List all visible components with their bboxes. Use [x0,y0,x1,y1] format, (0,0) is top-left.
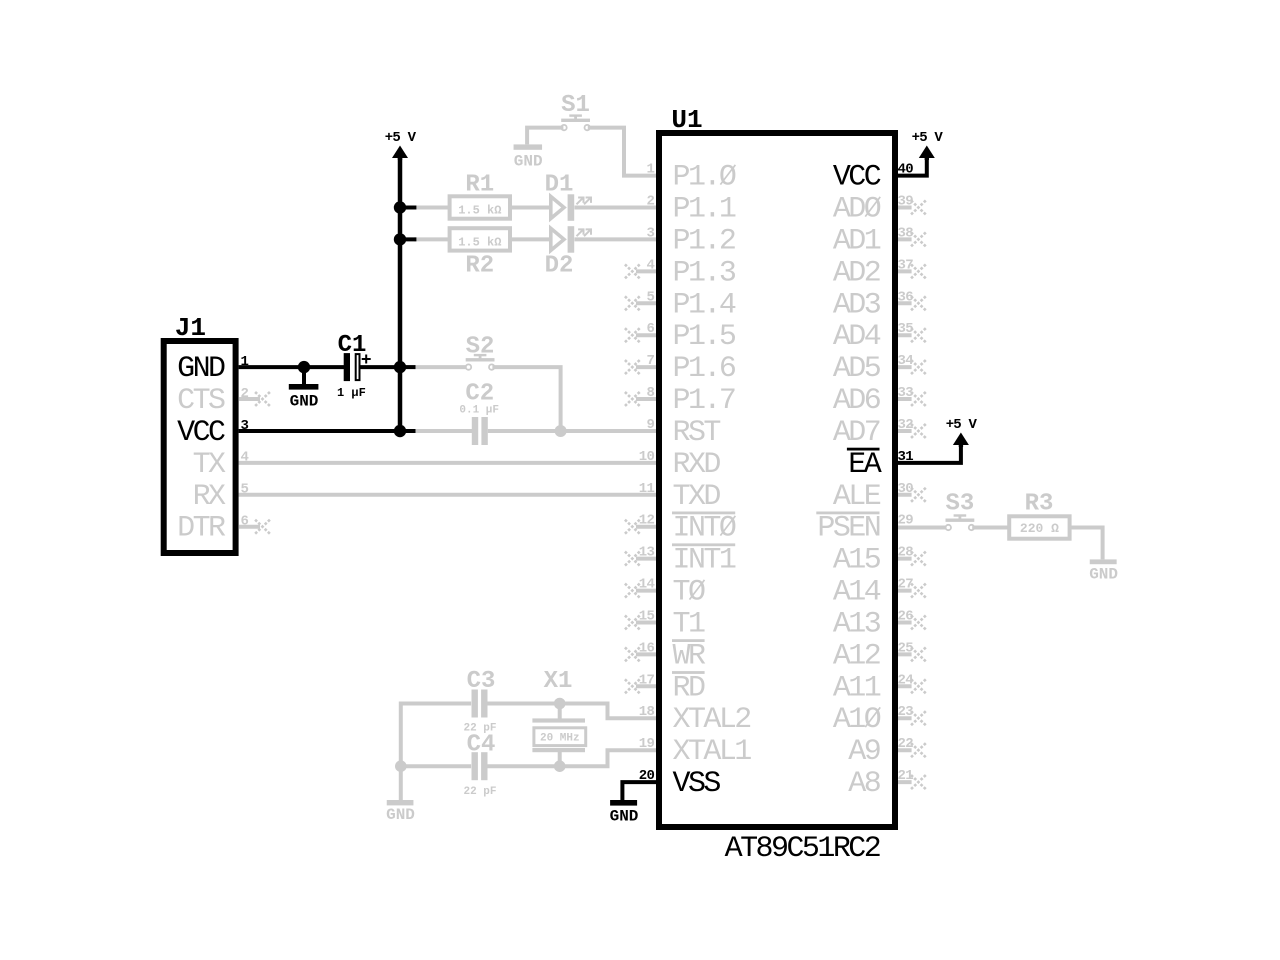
wire +5V stub to R2 [414,237,448,241]
svg-text:P1.2: P1.2 [673,224,735,258]
U1 pin 16 label WR [672,639,706,673]
svg-text:12: 12 [639,513,655,529]
wire +5V to S2 [414,365,466,369]
svg-text:10: 10 [639,449,655,465]
svg-text:INT1: INT1 [673,544,736,578]
U1 pin 5 stub (n.c.) [636,301,660,305]
svg-text:22 pF: 22 pF [463,786,496,798]
no-connect X (pin 17) [625,679,640,693]
U1 pin 34 stub (n.c.) [894,365,912,369]
svg-text:C1: C1 [338,332,367,359]
U1 pin 15 stub (n.c.) [636,621,660,625]
capacitor C2 [465,381,494,446]
wire crystal ground rail [399,702,403,801]
svg-text:220 Ω: 220 Ω [1020,521,1059,536]
wire rail stub R2 [400,237,416,241]
svg-text:D2: D2 [545,253,574,280]
svg-text:J1: J1 [175,313,206,343]
svg-text:AD3: AD3 [833,288,881,322]
svg-text:13: 13 [639,545,655,561]
svg-text:PSEN: PSEN [817,512,879,546]
svg-text:22: 22 [898,736,914,752]
U1 pin 39 stub (n.c.) [894,206,912,210]
wire J1 VCC to +5V rail [239,429,402,433]
node GND tee [298,361,310,373]
node XTAL1 tee [554,760,566,772]
svg-text:19: 19 [639,736,655,752]
svg-text:3: 3 [646,225,654,241]
wire rail stub R1 [400,206,416,210]
svg-text:2: 2 [646,194,654,210]
no-connect X (pin 16) [625,647,640,661]
svg-text:WR: WR [673,639,706,673]
node crystal gnd junction [395,760,407,772]
svg-text:26: 26 [898,609,914,625]
svg-text:35: 35 [898,321,914,337]
svg-text:37: 37 [898,257,914,273]
svg-text:4: 4 [646,257,654,273]
U1 pin 30 label ALE [833,480,881,514]
svg-text:R3: R3 [1025,491,1054,518]
svg-text:+5 V: +5 V [912,130,944,146]
wire J1 RX to U1 TXD [239,493,660,497]
svg-text:T1: T1 [673,608,705,642]
U1 pin 18 label XTAL2 [673,703,751,737]
no-connect X (CTS) [255,392,270,406]
svg-text:C4: C4 [467,731,496,758]
svg-text:AT89C51RC2: AT89C51RC2 [725,832,880,866]
power +5V (VCC pin 40) [919,146,935,159]
capacitor C1 [338,332,367,381]
svg-text:GND: GND [514,153,543,171]
LED D1 [545,172,591,221]
capacitor C3 [467,668,496,718]
no-connect X (pin 25) [911,647,926,661]
power +5V (EA pin 31) [953,433,969,446]
svg-text:P1.Ø: P1.Ø [673,161,737,195]
U1 pin 32 stub (n.c.) [894,429,912,433]
U1 pin 32 label AD7 [833,416,880,450]
U1 pin 39 label AD0 [833,193,882,227]
no-connect X (pin 8) [625,392,640,406]
svg-text:P1.6: P1.6 [673,352,736,386]
no-connect X (pin 28) [911,552,926,566]
svg-text:P1.3: P1.3 [673,256,736,290]
svg-text:1: 1 [646,162,654,178]
svg-text:X1: X1 [544,668,573,695]
wire C3 to U1 pin 18 (XTAL2) [488,704,661,719]
svg-text:+5 V: +5 V [946,417,978,433]
U1 pin 3 label P1.2 [673,224,735,258]
U1 pin 1 label P1.0 [673,161,737,195]
wire crystal bottom stub [558,751,562,766]
U1 pin 37 label AD2 [833,256,880,290]
svg-text:AD5: AD5 [833,352,881,386]
ground (crystal) [386,800,415,824]
wire R1 to D1 [512,206,551,210]
wire rail stub S2 [400,365,416,369]
U1 pin 23 label A10 [833,703,882,737]
node rail/R1 [394,201,406,213]
svg-text:TXD: TXD [673,480,721,514]
svg-text:17: 17 [639,672,655,688]
svg-text:5: 5 [646,289,654,305]
svg-text:GND: GND [1089,566,1118,584]
svg-text:20 MHz: 20 MHz [540,733,580,745]
svg-text:CTS: CTS [177,384,225,418]
svg-text:A12: A12 [833,639,880,673]
wire D1 to U1 pin 2 (P1.1) [575,206,661,210]
U1 pin 27 stub (n.c.) [894,589,912,593]
svg-text:11: 11 [639,481,655,497]
ground (R3) [1089,559,1118,583]
svg-text:C2: C2 [465,381,494,408]
no-connect X (pin 13) [625,552,640,566]
ground (VSS) [610,800,639,826]
svg-text:1.5 kΩ: 1.5 kΩ [458,236,501,250]
wire VCC to C2 [414,429,472,433]
svg-text:DTR: DTR [177,512,226,546]
no-connect X (pin 24) [911,679,926,693]
svg-text:C3: C3 [467,668,496,695]
no-connect X (pin 23) [911,711,926,725]
U1 pin 6 label P1.5 [673,320,736,354]
resistor R1 [450,172,510,219]
switch S2 [466,334,495,370]
U1 pin 23 stub (n.c.) [894,716,912,720]
U1 pin 19 label XTAL1 [673,735,752,769]
U1 pin 8 label P1.7 [673,384,735,418]
wire C2 to U1 pin 9 (RST) [488,429,660,433]
svg-text:U1: U1 [671,105,702,135]
svg-text:GND: GND [386,806,415,824]
svg-text:P1.4: P1.4 [673,288,736,322]
U1 pin 16 stub (n.c.) [636,652,660,656]
svg-text:GND: GND [177,352,225,386]
switch S1 [561,92,590,130]
wire U1 EA to +5V [892,447,961,463]
wire R3 to ground [1071,528,1103,560]
U1 pin 36 label AD3 [833,288,881,322]
svg-text:A13: A13 [833,608,881,642]
svg-text:27: 27 [898,577,914,593]
svg-text:GND: GND [610,808,639,826]
U1 pin 13 label INT1 [672,543,736,577]
svg-text:18: 18 [639,704,655,720]
no-connect X (pin 38) [911,232,926,246]
svg-text:ADØ: ADØ [833,193,882,227]
svg-text:29: 29 [898,513,914,529]
no-connect X (pin 35) [911,328,926,342]
wire U1 VCC to +5V [892,160,927,176]
svg-text:34: 34 [898,353,914,369]
svg-text:4: 4 [241,450,249,466]
wire C1 to +5V rail [361,365,403,369]
LED D2 [545,226,591,279]
U1 pin 38 label AD1 [833,224,881,258]
J1 pin 6 stub (DTR, n.c.) [239,525,260,529]
svg-text:23: 23 [898,704,914,720]
svg-text:15: 15 [639,609,655,625]
U1 pin 8 stub (n.c.) [636,397,660,401]
wire R2 to D2 [512,237,551,241]
C1 polarity + [362,355,371,364]
U1 pin 22 label A9 [848,735,879,769]
U1 pin 27 label A14 [833,576,881,610]
svg-text:16: 16 [639,640,655,656]
no-connect X (pin 32) [911,424,926,438]
connector J1 [164,341,236,553]
svg-text:6: 6 [646,321,654,337]
svg-text:+5 V: +5 V [385,130,417,146]
IC U1 body [659,133,895,827]
svg-text:A9: A9 [848,735,879,769]
U1 pin 38 stub (n.c.) [894,237,912,241]
no-connect X (pin 37) [911,264,926,278]
crystal X1 [532,668,585,752]
no-connect X (pin 5) [625,296,640,310]
svg-text:1.5 kΩ: 1.5 kΩ [458,204,501,218]
U1 pin 28 label A15 [833,544,881,578]
ground (C1) [289,384,319,410]
U1 pin 22 stub (n.c.) [894,748,912,752]
U1 pin 4 label P1.3 [673,256,736,290]
U1 pin 6 stub (n.c.) [636,333,660,337]
svg-text:XTAL2: XTAL2 [673,703,751,737]
U1 pin 25 label A12 [833,639,880,673]
node rail/VCC [394,425,406,437]
wire S3 to R3 [972,526,1008,530]
no-connect X (pin 30) [911,488,926,502]
svg-text:P1.7: P1.7 [673,384,735,418]
U1 pin 40 label VCC [833,161,881,195]
svg-text:24: 24 [898,672,914,688]
U1 pin 33 stub (n.c.) [894,397,912,401]
svg-text:AD1: AD1 [833,224,881,258]
no-connect X (pin 34) [911,360,926,374]
svg-text:GND: GND [290,392,319,410]
wire U1 pin 29 (PSEN) to S3 [894,526,948,530]
wire S1 to U1 pin 1 (P1.0) [588,128,660,176]
U1 pin 12 stub (n.c.) [636,525,660,529]
wire crystal top stub [558,704,562,720]
U1 pin 7 stub (n.c.) [636,365,660,369]
U1 pin 25 stub (n.c.) [894,652,912,656]
node rail/R2 [394,233,406,245]
U1 pin 7 label P1.6 [673,352,736,386]
wire C4 to U1 pin 19 (XTAL1) [488,750,661,766]
svg-text:36: 36 [898,289,914,305]
no-connect X (pin 21) [911,775,926,789]
wire J1 TX to U1 RXD [239,461,660,465]
no-connect X (pin 15) [625,616,640,630]
svg-text:AD6: AD6 [833,384,881,418]
svg-text:8: 8 [646,385,654,401]
U1 pin 10 label RXD [673,448,721,482]
U1 pin 12 label INT0 [672,512,737,546]
U1 pin 9 label RST [673,416,721,450]
U1 pin 33 label AD6 [833,384,881,418]
U1 pin 21 label A8 [848,767,880,801]
no-connect X (DTR) [255,520,270,534]
J1 pin 2 stub (CTS, n.c.) [239,397,260,401]
svg-text:A14: A14 [833,576,881,610]
U1 pin 14 label T0 [673,576,706,610]
U1 pin 4 stub (n.c.) [636,269,660,273]
node XTAL2 tee [554,698,566,710]
U1 pin 20 label VSS [673,767,721,801]
svg-text:RST: RST [673,416,721,450]
no-connect X (pin 27) [911,584,926,598]
U1 pin 14 stub (n.c.) [636,589,660,593]
U1 pin 13 stub (n.c.) [636,557,660,561]
no-connect X (pin 6) [625,328,640,342]
U1 pin 11 label TXD [673,480,721,514]
svg-text:S3: S3 [945,491,974,518]
svg-text:30: 30 [898,481,914,497]
power +5V (rail) [392,146,408,159]
U1 pin 17 label RD [672,671,705,705]
resistor R3 [1009,491,1069,539]
wire GND tee down [302,367,306,384]
+5V rail [398,158,403,431]
svg-text:39: 39 [898,194,914,210]
resistor R2 [450,228,510,279]
svg-text:TX: TX [193,448,226,482]
U1 pin 35 stub (n.c.) [894,333,912,337]
svg-text:14: 14 [639,577,655,593]
svg-text:RXD: RXD [673,448,721,482]
U1 pin 26 stub (n.c.) [894,621,912,625]
svg-text:INTØ: INTØ [673,512,737,546]
svg-text:VSS: VSS [673,767,721,801]
U1 pin 26 label A13 [833,608,881,642]
wire XTAL1 net [401,764,471,768]
wire XTAL2 net [401,702,471,706]
wire S2 to RST node [492,367,560,431]
U1 pin 5 label P1.4 [673,288,736,322]
no-connect X (pin 36) [911,296,926,310]
svg-text:9: 9 [646,417,654,433]
svg-text:32: 32 [898,417,914,433]
wire J1 GND to C1 [239,365,346,369]
U1 pin 24 stub (n.c.) [894,684,912,688]
svg-text:A1Ø: A1Ø [833,703,882,737]
svg-text:A15: A15 [833,544,881,578]
U1 pin 17 stub (n.c.) [636,684,660,688]
svg-text:VCC: VCC [177,416,225,450]
U1 pin 37 stub (n.c.) [894,269,912,273]
U1 pin 24 label A11 [833,671,881,705]
U1 pin 28 stub (n.c.) [894,557,912,561]
svg-text:ALE: ALE [833,480,881,514]
no-connect X (pin 12) [625,520,640,534]
wire +5V stub to R1 [414,206,448,210]
node RST junction [555,425,567,437]
svg-text:RX: RX [193,480,226,514]
svg-text:A11: A11 [833,671,881,705]
ground (S1) [514,144,543,170]
svg-text:XTAL1: XTAL1 [673,735,752,769]
no-connect X (pin 33) [911,392,926,406]
U1 pin 36 stub (n.c.) [894,301,912,305]
wire S1 left to ground [527,128,563,145]
no-connect X (pin 22) [911,743,926,757]
U1 pin 34 label AD5 [833,352,881,386]
svg-text:1 µF: 1 µF [337,386,366,400]
svg-text:AD2: AD2 [833,256,880,290]
U1 pin 29 label PSEN [816,512,879,546]
svg-text:RD: RD [673,671,705,705]
svg-text:TØ: TØ [673,576,706,610]
svg-text:R2: R2 [465,253,494,280]
capacitor C4 [467,731,496,780]
svg-text:7: 7 [646,353,654,369]
svg-text:AD4: AD4 [833,320,881,354]
svg-text:0.1 µF: 0.1 µF [459,405,499,417]
svg-text:33: 33 [898,385,914,401]
U1 pin 15 label T1 [673,608,705,642]
wire rail stub C2 [400,429,416,433]
svg-text:AD7: AD7 [833,416,880,450]
node rail/C1 [394,361,406,373]
svg-text:21: 21 [898,768,914,784]
U1 pin 2 label P1.1 [673,193,736,227]
svg-text:28: 28 [898,545,914,561]
wire D2 to U1 pin 3 (P1.2) [575,237,661,241]
switch S3 [945,491,974,531]
U1 pin 35 label AD4 [833,320,881,354]
no-connect X (pin 14) [625,584,640,598]
U1 pin 21 stub (n.c.) [894,780,912,784]
no-connect X (pin 26) [911,616,926,630]
svg-text:P1.5: P1.5 [673,320,736,354]
U1 pin 30 stub (n.c.) [894,493,912,497]
svg-text:38: 38 [898,225,914,241]
no-connect X (pin 7) [625,360,640,374]
svg-text:EA: EA [848,448,881,482]
svg-text:A8: A8 [848,767,880,801]
svg-text:5: 5 [241,482,249,498]
svg-text:P1.1: P1.1 [673,193,736,227]
no-connect X (pin 4) [625,264,640,278]
svg-text:25: 25 [898,640,914,656]
svg-text:VCC: VCC [833,161,881,195]
no-connect X (pin 39) [911,201,926,215]
U1 pin 31 label EA [847,448,882,482]
wire U1 VSS to ground [622,782,657,800]
